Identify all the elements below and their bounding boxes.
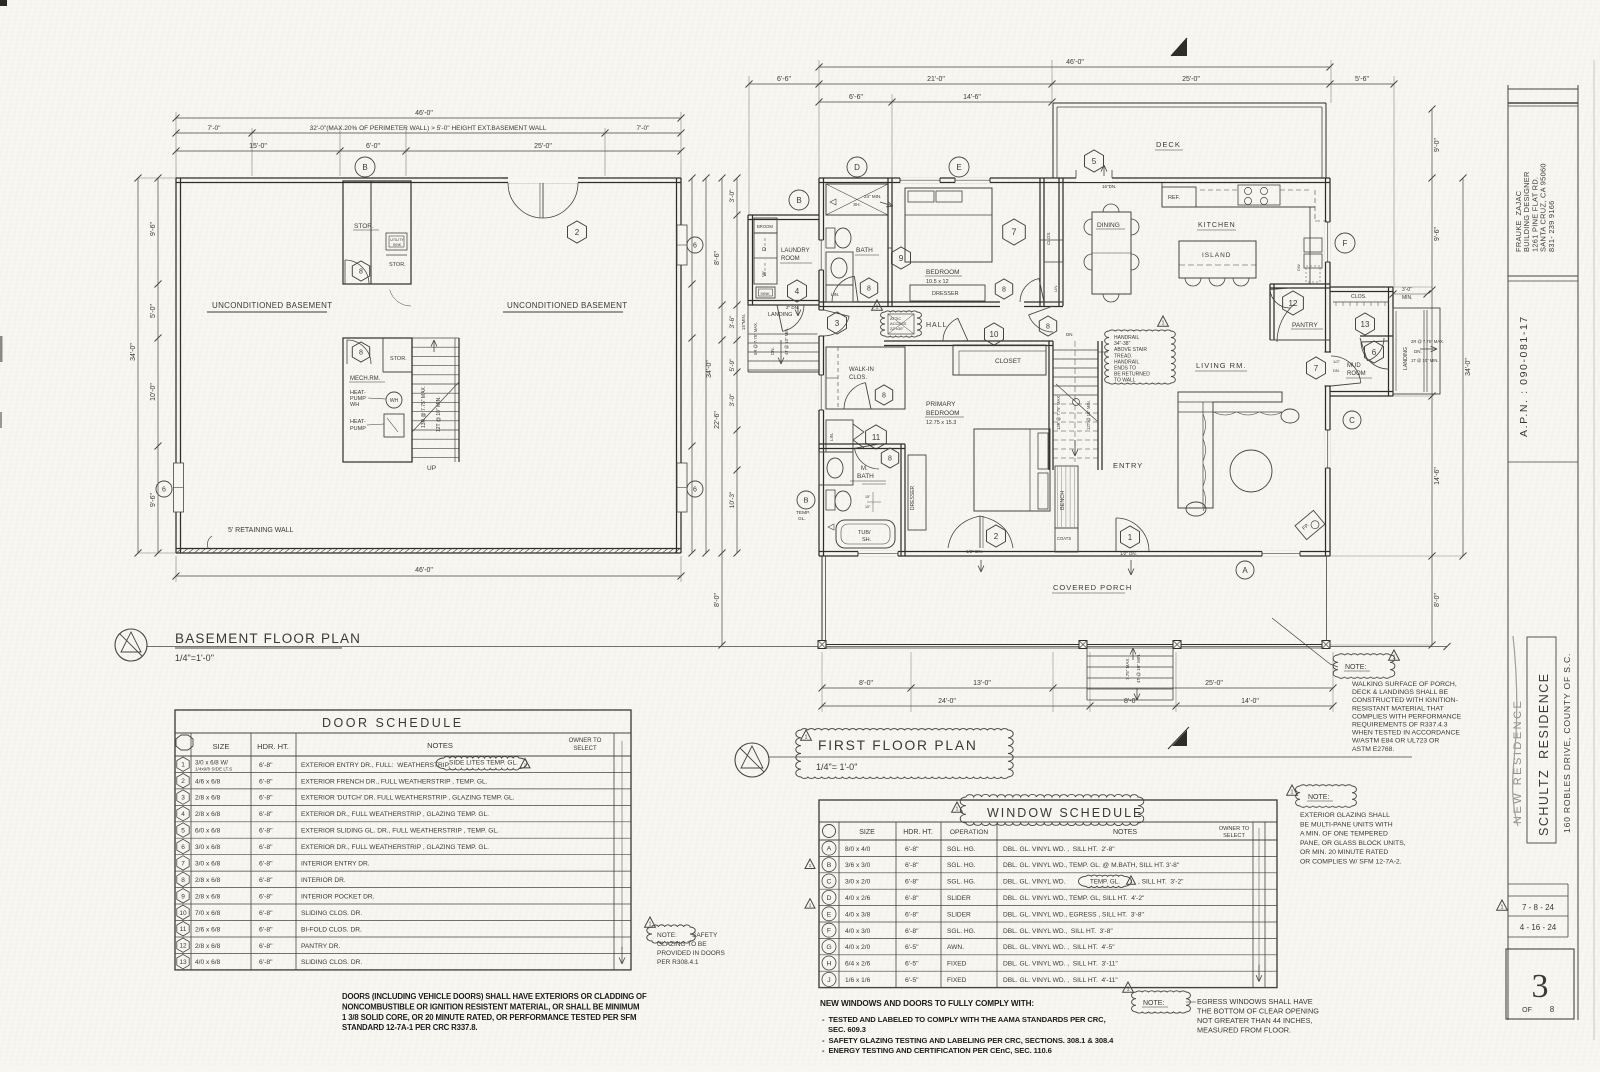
svg-text:1: 1 [1128, 533, 1133, 542]
svg-text:4T @ 10" MIN.: 4T @ 10" MIN. [1136, 653, 1141, 683]
svg-text:BATH: BATH [857, 473, 874, 480]
svg-text:C: C [1349, 416, 1355, 425]
svg-text:4/6 x 6/8: 4/6 x 6/8 [195, 778, 221, 785]
svg-text:6'-8": 6'-8" [259, 844, 273, 851]
svg-text:34"-38": 34"-38" [1114, 341, 1131, 347]
svg-text:6'-8": 6'-8" [905, 911, 919, 918]
svg-text:SEC. 609.3: SEC. 609.3 [822, 1025, 866, 1034]
svg-text:B: B [796, 196, 801, 205]
svg-text:NONCOMBUSTIBLE OR IGNITION RES: NONCOMBUSTIBLE OR IGNITION RESISTENT MAT… [342, 1002, 639, 1011]
svg-text:12T @ 10" MIN.: 12T @ 10" MIN. [1086, 400, 1091, 430]
svg-text:6'-8": 6'-8" [905, 879, 919, 886]
svg-text:PANTRY: PANTRY [1292, 322, 1318, 329]
svg-text:DN: DN [1066, 332, 1073, 337]
svg-text:NOTE:: NOTE: [1143, 1000, 1164, 1007]
svg-text:1: 1 [1501, 905, 1504, 911]
svg-text:1: 1 [805, 735, 808, 741]
svg-text:3/0 x 6/8: 3/0 x 6/8 [195, 861, 221, 868]
svg-text:1: 1 [956, 807, 959, 813]
svg-text:8: 8 [359, 350, 363, 357]
svg-text:2/8 x 6/8: 2/8 x 6/8 [195, 943, 221, 950]
svg-text:UP: UP [427, 465, 436, 472]
svg-text:9'-6": 9'-6" [150, 222, 157, 236]
svg-text:ASTM E2768.: ASTM E2768. [1352, 746, 1394, 753]
svg-text:SAFETY: SAFETY [692, 932, 718, 939]
svg-text:DN.: DN. [1333, 368, 1340, 373]
svg-text:ISLAND: ISLAND [1202, 252, 1231, 259]
svg-text:HALL: HALL [926, 322, 948, 329]
svg-text:6: 6 [181, 844, 185, 851]
svg-text:3/0 x 6/8: 3/0 x 6/8 [195, 844, 221, 851]
svg-text:MECH.RM.: MECH.RM. [350, 376, 381, 382]
svg-text:STOR.: STOR. [389, 262, 406, 268]
svg-text:22'-6": 22'-6" [714, 411, 721, 429]
svg-text:UNCONDITIONED BASEMENT: UNCONDITIONED BASEMENT [212, 301, 332, 310]
svg-text:REF.: REF. [1168, 195, 1180, 201]
svg-text:HDR. HT.: HDR. HT. [257, 742, 289, 751]
svg-text:DBL. GL. VINYL WD., SILL HT.: DBL. GL. VINYL WD., SILL HT. 3'-8" [1003, 928, 1113, 935]
svg-text:PUMP: PUMP [350, 426, 366, 432]
svg-text:D: D [854, 163, 860, 172]
svg-text:7/0 x 6/8: 7/0 x 6/8 [195, 910, 221, 917]
svg-text:NOTES: NOTES [1113, 829, 1137, 836]
svg-text:BI-FOLD CLOS. DR.: BI-FOLD CLOS. DR. [301, 926, 362, 933]
svg-text:6'-8": 6'-8" [259, 910, 273, 917]
svg-text:7: 7 [1314, 364, 1319, 373]
svg-text:5'-0": 5'-0" [150, 304, 157, 318]
svg-text:8: 8 [181, 877, 185, 884]
svg-text:2/8 x 6/8: 2/8 x 6/8 [195, 893, 221, 900]
svg-text:2: 2 [181, 778, 185, 785]
svg-text:7'-0": 7'-0" [208, 125, 222, 132]
svg-text:8/0 x 4/0: 8/0 x 4/0 [845, 846, 871, 853]
svg-text:PROVIDED IN DOORS: PROVIDED IN DOORS [657, 950, 726, 957]
svg-text:8'-0": 8'-0" [714, 593, 721, 607]
svg-text:1: 1 [1162, 321, 1165, 327]
svg-text:DBL. GL. VINYL WD. , SILL HT.: DBL. GL. VINYL WD. , SILL HT. 2'-8" [1003, 846, 1115, 853]
svg-text:SINK: SINK [760, 291, 770, 296]
svg-text:CLOS.: CLOS. [1046, 231, 1051, 245]
svg-text:3'-6": 3'-6" [729, 315, 736, 329]
svg-text:DOOR SCHEDULE: DOOR SCHEDULE [322, 716, 464, 730]
svg-text:FIXED: FIXED [947, 961, 967, 968]
svg-text:EGRESS WINDOWS SHALL HAVE: EGRESS WINDOWS SHALL HAVE [1197, 997, 1313, 1006]
svg-text:H: H [827, 961, 832, 968]
svg-text:M.: M. [861, 466, 868, 472]
svg-text:EXTERIOR DR., FULL WEATHERSTRI: EXTERIOR DR., FULL WEATHERSTRIP , GLAZIN… [301, 844, 489, 851]
svg-text:FIRST FLOOR PLAN: FIRST FLOOR PLAN [818, 738, 978, 753]
svg-text:PANE, OR GLASS BLOCK UNITS,: PANE, OR GLASS BLOCK UNITS, [1300, 840, 1406, 847]
svg-text:6/4 x 2/6: 6/4 x 2/6 [845, 961, 871, 968]
svg-text:3/6 x 3/0: 3/6 x 3/0 [845, 862, 871, 869]
svg-text:12: 12 [1289, 299, 1298, 308]
svg-text:DBL. GL. VINYL WD. , SILL HT.: DBL. GL. VINYL WD. , SILL HT. 3'-11" [1003, 961, 1118, 968]
svg-text:DBL. GL. VINYL WD.: DBL. GL. VINYL WD. [1003, 879, 1066, 886]
svg-text:CLOSET: CLOSET [995, 358, 1021, 365]
svg-text:ROOM: ROOM [781, 256, 800, 262]
svg-text:4/0 x 6/8: 4/0 x 6/8 [195, 959, 221, 966]
svg-text:2/8 x 6/8: 2/8 x 6/8 [195, 795, 221, 802]
svg-text:13: 13 [179, 959, 187, 966]
svg-text:34'-0": 34'-0" [1465, 358, 1472, 376]
svg-text:EXTERIOR SLIDING GL. DR., FULL: EXTERIOR SLIDING GL. DR., FULL WEATHERST… [301, 828, 499, 835]
svg-text:C: C [827, 879, 832, 886]
svg-text:DBL. GL. VINYL WD., EGRESS , S: DBL. GL. VINYL WD., EGRESS , SILL HT. 3'… [1003, 911, 1145, 918]
svg-text:7: 7 [181, 860, 185, 867]
svg-text:SLIDER: SLIDER [947, 911, 971, 918]
svg-text:2: 2 [575, 228, 580, 237]
svg-text:UTILITY: UTILITY [390, 238, 404, 242]
svg-text:7'-0": 7'-0" [637, 125, 651, 132]
svg-text:5: 5 [1092, 157, 1097, 166]
svg-text:ENTRY: ENTRY [1113, 461, 1143, 470]
svg-text:WH: WH [350, 402, 359, 408]
svg-text:6'-8": 6'-8" [259, 893, 273, 900]
svg-text:BROOM: BROOM [757, 224, 773, 229]
svg-text:34'-0": 34'-0" [706, 360, 713, 378]
svg-text:2/6 x 6/8: 2/6 x 6/8 [195, 926, 221, 933]
svg-text:6'-8": 6'-8" [905, 846, 919, 853]
svg-text:1T @ 10" MIN.: 1T @ 10" MIN. [1411, 358, 1439, 363]
svg-text:OF: OF [1522, 1007, 1532, 1014]
svg-text:SH.: SH. [853, 202, 861, 207]
svg-text:4/0 x 2/0: 4/0 x 2/0 [845, 944, 871, 951]
svg-text:A: A [827, 846, 832, 853]
svg-text:D: D [827, 895, 832, 902]
svg-text:1/4"=1'-0": 1/4"=1'-0" [175, 653, 214, 663]
svg-text:5' RETAINING WALL: 5' RETAINING WALL [228, 527, 294, 534]
svg-text:TUB/: TUB/ [858, 530, 871, 536]
svg-text:10: 10 [990, 330, 999, 339]
svg-text:10.5 x 12: 10.5 x 12 [926, 279, 949, 285]
svg-text:2/8 x 6/8: 2/8 x 6/8 [195, 877, 221, 884]
svg-text:REQUIREMENTS OF R337.4.3: REQUIREMENTS OF R337.4.3 [1352, 722, 1448, 729]
svg-text:6'-0": 6'-0" [366, 143, 380, 150]
svg-text:OR COMPLIES W/ SFM 12-7A-2.: OR COMPLIES W/ SFM 12-7A-2. [1300, 859, 1402, 866]
svg-text:DBL. GL. VINYL WD. , SILL HT.: DBL. GL. VINYL WD. , SILL HT. 4'-11" [1003, 977, 1118, 984]
svg-text:TEMP.: TEMP. [796, 510, 810, 516]
svg-text:15": 15" [865, 505, 871, 509]
svg-text:UNCONDITIONED BASEMENT: UNCONDITIONED BASEMENT [507, 301, 627, 310]
svg-text:F: F [827, 928, 831, 935]
svg-text:6'-5": 6'-5" [905, 961, 919, 968]
svg-text:25'-0": 25'-0" [534, 143, 552, 150]
svg-text:4/0 x 3/8: 4/0 x 3/8 [845, 911, 871, 918]
svg-text:12T @ 10" MIN.: 12T @ 10" MIN. [436, 396, 442, 432]
svg-text:SIDE LITES TEMP. GL.: SIDE LITES TEMP. GL. [449, 759, 518, 766]
svg-text:SELECT: SELECT [1223, 833, 1245, 839]
svg-text:8: 8 [882, 393, 886, 400]
svg-text:HEAT-: HEAT- [350, 419, 366, 425]
svg-text:NOTES: NOTES [427, 741, 453, 750]
svg-text:CLOS.: CLOS. [849, 375, 867, 381]
svg-text:3'-0": 3'-0" [1402, 287, 1412, 293]
svg-text:5R @ 7.75" MAX.: 5R @ 7.75" MAX. [753, 322, 758, 355]
svg-text:GLAZING TO BE: GLAZING TO BE [657, 941, 707, 948]
svg-text:1: 1 [1291, 790, 1294, 796]
svg-text:DBL. GL. VINYL WD. , SILL HT.: DBL. GL. VINYL WD. , SILL HT. 4'-5" [1003, 944, 1115, 951]
svg-text:KITCHEN: KITCHEN [1198, 222, 1236, 229]
svg-text:- TESTED AND LABELED TO COMPL: - TESTED AND LABELED TO COMPLY WITH THE … [822, 1015, 1106, 1024]
svg-text:WALK-IN: WALK-IN [849, 367, 874, 373]
svg-text:21'-0": 21'-0" [927, 76, 945, 83]
svg-text:6'-8": 6'-8" [259, 811, 273, 818]
svg-text:2: 2 [994, 532, 999, 541]
svg-text:6'-8": 6'-8" [905, 862, 919, 869]
svg-text:4: 4 [181, 811, 185, 818]
svg-text:1: 1 [1393, 655, 1396, 661]
svg-text:NOT GREATER THAN 44 INCHES,: NOT GREATER THAN 44 INCHES, [1197, 1016, 1313, 1025]
svg-text:4: 4 [795, 287, 800, 296]
svg-text:B: B [803, 496, 808, 505]
svg-text:EXTERIOR GLAZING SHALL: EXTERIOR GLAZING SHALL [1300, 812, 1390, 819]
svg-text:A MIN. OF ONE TEMPERED: A MIN. OF ONE TEMPERED [1300, 831, 1388, 838]
svg-text:1: 1 [809, 863, 812, 869]
svg-text:COVERED PORCH: COVERED PORCH [1053, 583, 1132, 592]
svg-text:SINK: SINK [393, 243, 402, 247]
svg-text:9'-0": 9'-0" [1434, 138, 1441, 152]
svg-text:10: 10 [179, 910, 187, 917]
svg-text:BE MULTI-PANE UNITS WITH: BE MULTI-PANE UNITS WITH [1300, 821, 1393, 828]
svg-text:2" DN.: 2" DN. [786, 305, 799, 310]
svg-text:RESISTANT MATERIAL THAT: RESISTANT MATERIAL THAT [1352, 705, 1444, 712]
svg-text:3: 3 [835, 319, 840, 328]
svg-text:HDR. HT.: HDR. HT. [903, 829, 933, 836]
svg-text:4/0 x 2/6: 4/0 x 2/6 [845, 895, 871, 902]
svg-text:3'-0": 3'-0" [729, 393, 736, 407]
svg-text:1 3/8 SOLID CORE, OR 20 MINUTE: 1 3/8 SOLID CORE, OR 20 MINUTE RATED, OR… [342, 1013, 636, 1022]
svg-text:STANDARD 12-7A-1 PER CRC R337.: STANDARD 12-7A-1 PER CRC R337.8. [342, 1023, 477, 1032]
svg-text:DBL. GL. VINYL WD., TEMP. GL.: DBL. GL. VINYL WD., TEMP. GL. @ M.BATH, … [1003, 862, 1180, 869]
svg-text:22"x30": 22"x30" [890, 326, 904, 331]
svg-text:6'-8": 6'-8" [259, 762, 273, 769]
svg-text:6: 6 [693, 487, 697, 494]
svg-text:SLIDING CLOS. DR.: SLIDING CLOS. DR. [301, 910, 362, 917]
svg-text:12.75 x 15.3: 12.75 x 15.3 [926, 420, 956, 426]
svg-text:WINDOW SCHEDULE: WINDOW SCHEDULE [987, 806, 1143, 820]
svg-text:EXTERIOR 'DUTCH' DR. FULL WEAT: EXTERIOR 'DUTCH' DR. FULL WEATHERSTRIP ,… [301, 795, 515, 802]
svg-text:INTERIOR POCKET DR.: INTERIOR POCKET DR. [301, 893, 375, 900]
svg-text:MUD: MUD [1347, 363, 1361, 369]
svg-text:1/2" DN.: 1/2" DN. [1120, 551, 1137, 556]
svg-text:1/2" DN.: 1/2" DN. [966, 549, 983, 554]
svg-text:8'-6": 8'-6" [714, 251, 721, 265]
svg-text:COATS: COATS [1057, 536, 1071, 541]
svg-text:2R @ 7.75" MAX.: 2R @ 7.75" MAX. [1411, 339, 1444, 344]
svg-text:A: A [1242, 566, 1248, 575]
svg-text:AWN.: AWN. [947, 944, 964, 951]
svg-text:NOTE:: NOTE: [657, 932, 677, 939]
svg-text:LIN.: LIN. [1053, 285, 1058, 292]
svg-text:LIN.: LIN. [829, 433, 834, 441]
svg-text:B: B [362, 163, 367, 172]
svg-text:13R @ 7.75" MAX.: 13R @ 7.75" MAX. [421, 386, 427, 428]
svg-text:34'-0": 34'-0" [130, 343, 137, 361]
svg-text:15": 15" [865, 495, 871, 499]
svg-text:E: E [827, 911, 832, 918]
svg-text:DECK & LANDINGS SHALL BE: DECK & LANDINGS SHALL BE [1352, 689, 1449, 696]
svg-text:7.75" MAX.: 7.75" MAX. [1125, 657, 1130, 680]
svg-text:16"DN.: 16"DN. [1102, 184, 1116, 189]
svg-text:13R @ 7.75" MAX: 13R @ 7.75" MAX [1056, 396, 1061, 430]
svg-text:DRESSER: DRESSER [910, 485, 916, 510]
svg-text:THE BOTTOM OF CLEAR OPENING: THE BOTTOM OF CLEAR OPENING [1197, 1007, 1319, 1016]
svg-text:7: 7 [1011, 227, 1016, 237]
svg-text:SLIDING CLOS. DR.: SLIDING CLOS. DR. [301, 959, 362, 966]
svg-text:3: 3 [181, 795, 185, 802]
svg-text:9'-6": 9'-6" [1434, 227, 1441, 241]
svg-text:EXTERIOR DR., FULL WEATHERSTRI: EXTERIOR DR., FULL WEATHERSTRIP , GLAZIN… [301, 811, 489, 818]
svg-text:, SILL HT. 3'-2": , SILL HT. 3'-2" [1138, 879, 1184, 886]
svg-text:EXTERIOR ENTRY DR., FULL: WEA: EXTERIOR ENTRY DR., FULL: WEATHERSTRIP, [301, 762, 450, 769]
svg-text:SGL. HG.: SGL. HG. [947, 862, 976, 869]
svg-text:8'-0": 8'-0" [1124, 698, 1138, 705]
svg-text:FIXED: FIXED [947, 977, 967, 984]
svg-text:DN.: DN. [770, 347, 775, 355]
svg-text:25'-0": 25'-0" [1182, 76, 1200, 83]
svg-text:WH: WH [390, 398, 399, 404]
svg-text:9: 9 [181, 893, 185, 900]
svg-text:160 ROBLES DRIVE, COUNTY OF S.: 160 ROBLES DRIVE, COUNTY OF S.C. [1562, 653, 1572, 833]
svg-text:6: 6 [162, 487, 166, 494]
svg-text:SGL. HG.: SGL. HG. [947, 879, 976, 886]
svg-text:6'-5": 6'-5" [905, 944, 919, 951]
svg-text:13'-0": 13'-0" [973, 680, 991, 687]
svg-text:6'-8": 6'-8" [259, 926, 273, 933]
svg-text:DBL. GL. VINYL WD., TEMP. GL,: DBL. GL. VINYL WD., TEMP. GL, SILL HT. 4… [1003, 895, 1145, 902]
svg-text:5'-9": 5'-9" [729, 358, 736, 372]
svg-text:INTERIOR DR.: INTERIOR DR. [301, 877, 346, 884]
svg-text:1/6 x 1/6: 1/6 x 1/6 [845, 977, 871, 984]
svg-text:6'-8": 6'-8" [259, 828, 273, 835]
svg-text:25'-0": 25'-0" [1205, 680, 1223, 687]
svg-text:SIZE: SIZE [859, 829, 875, 836]
svg-text:32'-0"(MAX.20% OF PERIMETER WA: 32'-0"(MAX.20% OF PERIMETER WALL) > 5'-0… [310, 125, 547, 132]
svg-text:OWNER TO: OWNER TO [569, 738, 602, 744]
svg-text:BASEMENT FLOOR PLAN: BASEMENT FLOOR PLAN [175, 631, 361, 646]
svg-text:LANDING: LANDING [1403, 347, 1409, 370]
svg-text:6'-8": 6'-8" [259, 943, 273, 950]
svg-text:CLOS.: CLOS. [1351, 294, 1367, 300]
svg-text:6'-8": 6'-8" [259, 795, 273, 802]
svg-text:ABOVE STAIR: ABOVE STAIR [1114, 347, 1147, 353]
svg-text:5: 5 [181, 828, 185, 835]
svg-text:F: F [1343, 239, 1348, 248]
svg-text:DRESSER: DRESSER [932, 291, 959, 297]
svg-text:6'-8": 6'-8" [259, 877, 273, 884]
svg-text:- ENERGY TESTING AND CERTIFIC: - ENERGY TESTING AND CERTIFICATION PER C… [822, 1046, 1052, 1055]
svg-text:8: 8 [867, 286, 871, 293]
svg-text:3'-0": 3'-0" [729, 189, 736, 203]
svg-text:14'-6": 14'-6" [1434, 467, 1441, 485]
svg-text:BEDROOM: BEDROOM [926, 410, 960, 417]
svg-text:2/8 x 6/8: 2/8 x 6/8 [195, 811, 221, 818]
svg-text:SGL. HG.: SGL. HG. [947, 928, 976, 935]
svg-text:STOR.: STOR. [390, 356, 407, 362]
svg-text:INTERIOR ENTRY DR.: INTERIOR ENTRY DR. [301, 861, 370, 868]
svg-text:6'-6": 6'-6" [777, 76, 791, 83]
svg-text:8: 8 [1002, 287, 1006, 294]
svg-text:DINING: DINING [1097, 222, 1120, 229]
svg-text:BENCH: BENCH [1060, 491, 1066, 510]
svg-text:6: 6 [693, 243, 697, 250]
svg-text:8: 8 [888, 456, 892, 463]
svg-text:ROOM: ROOM [1347, 371, 1366, 377]
svg-text:12: 12 [179, 943, 187, 950]
svg-text:1/4x9/8 SIDE LT.S: 1/4x9/8 SIDE LT.S [195, 767, 232, 772]
svg-text:6'-8": 6'-8" [259, 861, 273, 868]
svg-text:11: 11 [180, 926, 187, 933]
svg-text:6'-8": 6'-8" [259, 778, 273, 785]
svg-text:DOORS (INCLUDING VEHICLE DOORS: DOORS (INCLUDING VEHICLE DOORS) SHALL HA… [342, 992, 647, 1001]
svg-text:8: 8 [1046, 324, 1050, 331]
svg-text:1: 1 [1127, 987, 1130, 993]
svg-text:A.P.N. : 090-081-17: A.P.N. : 090-081-17 [1518, 315, 1530, 437]
svg-text:SELECT: SELECT [573, 746, 597, 752]
svg-text:5'-6": 5'-6" [1355, 76, 1369, 83]
svg-text:COMPLIES WITH PERFORMANCE: COMPLIES WITH PERFORMANCE [1352, 713, 1462, 720]
svg-text:LANDING: LANDING [768, 312, 792, 318]
svg-text:3: 3 [1532, 968, 1549, 1005]
svg-text:1: 1 [809, 903, 812, 909]
svg-text:DN.: DN. [1414, 349, 1422, 354]
svg-text:NOTE:: NOTE: [1345, 664, 1366, 671]
svg-text:46'-0": 46'-0" [415, 567, 433, 574]
svg-text:PER R308.4.1: PER R308.4.1 [657, 959, 699, 966]
svg-text:OWNER TO: OWNER TO [1219, 826, 1250, 832]
svg-text:8'-0": 8'-0" [1434, 593, 1441, 607]
svg-text:ENDS TO: ENDS TO [1114, 366, 1136, 372]
svg-text:6'-5": 6'-5" [905, 977, 919, 984]
svg-text:6'-8": 6'-8" [905, 928, 919, 935]
svg-text:DECK: DECK [1156, 140, 1181, 149]
svg-text:14'-6": 14'-6" [963, 94, 981, 101]
svg-text:6'-6": 6'-6" [849, 94, 863, 101]
svg-text:WALKING SURFACE OF PORCH,: WALKING SURFACE OF PORCH, [1352, 681, 1457, 688]
svg-text:SIZE: SIZE [213, 742, 230, 751]
svg-text:TREAD.: TREAD. [1114, 353, 1132, 359]
svg-text:10'-3": 10'-3" [729, 491, 736, 508]
svg-text:GL.: GL. [798, 516, 806, 522]
svg-text:HANDRAIL: HANDRAIL [1114, 335, 1140, 341]
svg-text:SLIDER: SLIDER [947, 895, 971, 902]
svg-text:BEDROOM: BEDROOM [926, 269, 960, 276]
svg-text:LIVING RM.: LIVING RM. [1196, 361, 1246, 370]
svg-text:E: E [956, 163, 961, 172]
svg-text:G: G [826, 944, 831, 951]
svg-text:HANDRAIL: HANDRAIL [1114, 359, 1140, 365]
svg-text:BATH: BATH [856, 247, 873, 254]
svg-text:WHEN TESTED IN ACCORDANCE: WHEN TESTED IN ACCORDANCE [1352, 730, 1460, 737]
svg-text:1: 1 [876, 305, 879, 311]
svg-text:9'-6": 9'-6" [150, 493, 157, 507]
svg-text:831- 239 9166: 831- 239 9166 [1547, 200, 1556, 252]
svg-text:SH.: SH. [862, 537, 872, 543]
svg-text:CONSTRUCTED WITH IGNITION-: CONSTRUCTED WITH IGNITION- [1352, 697, 1458, 704]
svg-text:- SAFETY GLAZING TESTING AND: - SAFETY GLAZING TESTING AND LABELING PE… [822, 1036, 1114, 1045]
svg-text:6'-8": 6'-8" [259, 959, 273, 966]
svg-text:DW: DW [1296, 264, 1301, 271]
svg-text:3/0 x 6/8 W/: 3/0 x 6/8 W/ [195, 759, 228, 766]
svg-text:6/0 x 6/8: 6/0 x 6/8 [195, 828, 221, 835]
svg-text:SCHULTZ RESIDENCE: SCHULTZ RESIDENCE [1537, 672, 1551, 836]
svg-text:15"MIN.: 15"MIN. [741, 314, 746, 330]
svg-text:BE RETURNED: BE RETURNED [1114, 372, 1150, 378]
svg-text:7 - 8 - 24: 7 - 8 - 24 [1522, 903, 1555, 912]
svg-text:J: J [827, 977, 830, 984]
svg-text:3/0 x 2/0: 3/0 x 2/0 [845, 879, 871, 886]
svg-text:24" MIN.: 24" MIN. [864, 194, 881, 199]
